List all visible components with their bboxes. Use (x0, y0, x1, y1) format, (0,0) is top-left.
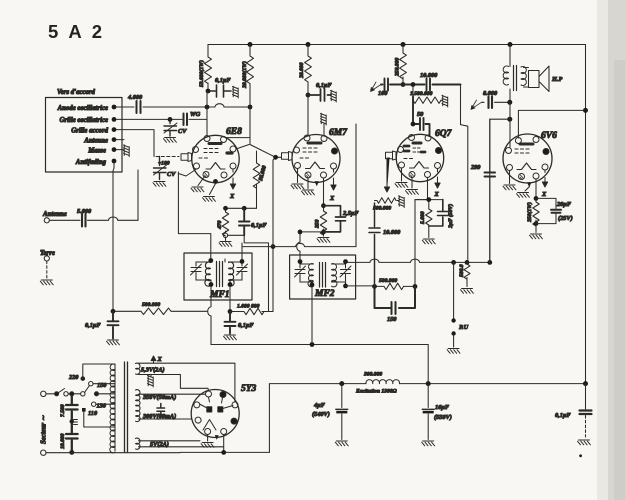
svg-text:Excitation 1300Ω: Excitation 1300Ω (355, 389, 398, 395)
tube 6E8 envelope (192, 135, 239, 182)
MF1 left trimmer (191, 262, 202, 280)
node divider stub x=207 (206, 91, 208, 136)
tube 5Y3 envelope (191, 390, 239, 438)
field coil Excitation (355, 372, 400, 395)
6Q7 pins (398, 135, 442, 178)
tube 6M7 envelope (292, 135, 340, 183)
svg-text:20.000(1W): 20.000(1W) (241, 61, 248, 89)
mains filter caps (60, 396, 78, 455)
svg-text:X: X (541, 191, 547, 198)
AVC line to 6Q7 grid cap50 (242, 124, 356, 247)
wire right leg to 6Q7 cathode (415, 200, 427, 287)
6M7 internals (300, 143, 325, 169)
wire 6M7 grid down to AVC (273, 157, 282, 311)
6E8 pins (193, 136, 237, 184)
svg-text:Vers d'accord: Vers d'accord (57, 89, 96, 96)
6Q7 grid stem (386, 151, 397, 160)
svg-text:5 A 2: 5 A 2 (48, 21, 105, 42)
node bus junctions (248, 42, 513, 47)
capacitor 8.000 + top-cap arrow (6Q7) (471, 90, 510, 110)
svg-text:500.000: 500.000 (142, 302, 160, 308)
svg-text:10.000: 10.000 (383, 229, 401, 236)
wire to MF1 secondary top (244, 235, 268, 311)
svg-text:Antifading: Antifading (75, 159, 107, 166)
svg-text:X: X (434, 191, 440, 198)
capacitor WG (184, 114, 188, 126)
svg-text:470: 470 (217, 220, 223, 230)
svg-text:Grille accord: Grille accord (71, 128, 108, 135)
wire MF2 primary top to y231.9 (297, 232, 324, 262)
resistor 500.000 vert (P.U load) (459, 262, 473, 293)
svg-text:250.000: 250.000 (395, 58, 401, 77)
6M7 grid stem (282, 152, 293, 161)
5Y3 cathode to B- (223, 435, 225, 453)
svg-text:(25V): (25V) (558, 215, 573, 222)
MF1 box (184, 253, 252, 300)
chassis masse (116, 149, 124, 151)
svg-text:0,1µF: 0,1µF (316, 82, 332, 89)
power transformer (110, 362, 128, 453)
MF1 right coil (229, 262, 235, 286)
pin hatch 6E8 (205, 173, 208, 178)
capacitor 20uF (25V) (536, 198, 573, 223)
filament X arrow 6Q7 (435, 169, 440, 188)
svg-text:150: 150 (387, 316, 397, 323)
svg-text:6E8: 6E8 (226, 127, 242, 137)
MF1 top wires (196, 243, 242, 263)
5Y3 pins (194, 391, 238, 435)
svg-text:0,1µF: 0,1µF (555, 412, 571, 419)
svg-text:WG: WG (190, 111, 201, 118)
svg-text:500.000: 500.000 (379, 278, 397, 284)
wire antifading down (113, 163, 114, 311)
svg-text:50.000: 50.000 (258, 165, 268, 182)
terminal Antenne (44, 218, 49, 223)
capacitor 0,1uF (osc cathode) (228, 208, 268, 235)
6M7 pins (294, 135, 338, 178)
MF2 primary return to bus (311, 286, 313, 345)
secondary 6,3V (136, 356, 235, 402)
svg-text:(540V): (540V) (312, 411, 330, 418)
resistor 20.000 (6M7 screen) (299, 45, 311, 98)
resistor 500.000 (diode load) (372, 278, 417, 290)
capacitor 2,5uF (6M7 cathode) (324, 206, 360, 232)
wire 6E8 plate to MF1 (178, 172, 210, 259)
wire 6Q7 grid to pot arrow (384, 158, 389, 192)
svg-text:6V6: 6V6 (541, 131, 557, 141)
resistor 53.000(1W) (198, 45, 212, 92)
svg-text:+100: +100 (158, 161, 170, 167)
MF1 primary return w/ hop (208, 286, 211, 345)
potentiometer 500.000 (volume) (373, 196, 404, 212)
wire volume pot left leg w/ cap 10.000 (369, 203, 401, 286)
svg-text:500.0: 500.0 (459, 264, 465, 277)
capacitor 16uF electrolytic (422, 384, 452, 446)
wire B+ to output transformer (509, 45, 511, 148)
6M7 cathode: resistor 350 (315, 178, 330, 242)
svg-text:5Y3: 5Y3 (241, 384, 257, 394)
svg-text:299: 299 (470, 164, 481, 171)
svg-text:0,1µF: 0,1µF (238, 322, 254, 329)
svg-text:1.000 000: 1.000 000 (237, 304, 260, 310)
svg-text:Anode oscillatrice: Anode oscillatrice (57, 105, 108, 112)
svg-text:6M7: 6M7 (329, 128, 348, 138)
6V6 cathode: resistor 250(1W) + 20uF (526, 179, 542, 239)
capacitor 4uF electrolytic (312, 384, 348, 446)
wire tone cap line to 299 (490, 119, 510, 262)
box Vers d'accord (46, 98, 123, 173)
svg-text:Grille oscillatrice: Grille oscillatrice (59, 117, 108, 124)
wire right border (585, 45, 587, 384)
capacitor 50 (6Q7 grid) (411, 97, 430, 137)
P.U pickup (447, 262, 469, 353)
svg-text:Antenne: Antenne (83, 138, 108, 145)
svg-text:350: 350 (315, 219, 321, 229)
6V6 internals (515, 144, 536, 170)
svg-text:4.000: 4.000 (127, 94, 143, 101)
MF2 left trimmer (295, 264, 306, 282)
svg-text:5V(2A): 5V(2A) (150, 441, 169, 448)
6E8 plate wiring to bus (226, 107, 276, 157)
6Q7 internals (404, 143, 429, 168)
svg-text:300.000: 300.000 (363, 372, 382, 378)
ground 6E8 bottom (210, 184, 216, 195)
resistor 1.000.000 (230, 304, 273, 315)
tube 6Q7 envelope (396, 134, 443, 181)
MF2 right trimmer (340, 264, 351, 282)
ground 6E8 left (198, 177, 205, 186)
MF2 left coil (308, 264, 313, 287)
MF2 secondary bottom to diode line (346, 285, 375, 287)
svg-text:350V(50mA): 350V(50mA) (142, 394, 176, 401)
svg-text:Masse: Masse (87, 148, 106, 155)
ground 6Q7 mid (411, 178, 413, 189)
resistor 20.000(1W) (241, 45, 254, 108)
svg-text:X: X (157, 356, 163, 363)
MF1 bottom wires (196, 280, 242, 286)
ground 6Q7 left (401, 168, 403, 181)
capacitor 0,1uF (line) (555, 384, 592, 458)
6E8 grid stem (181, 153, 192, 162)
svg-text:6Q7: 6Q7 (435, 129, 453, 139)
MF1 right trimmer (237, 262, 248, 280)
svg-text:10.000: 10.000 (60, 433, 66, 449)
svg-text:8.000: 8.000 (483, 90, 498, 97)
MF1 secondary bottom to AVC node (229, 286, 231, 312)
svg-text:0,1µF: 0,1µF (251, 222, 267, 229)
svg-text:7.500: 7.500 (60, 404, 66, 417)
capacitor 0,1uF (6E8 screen) (206, 77, 239, 98)
svg-text:0,1µF: 0,1µF (215, 77, 231, 84)
capacitor 100 + top-cap arrow (6M7) (371, 79, 402, 98)
svg-text:Antenne: Antenne (42, 211, 67, 218)
svg-text:300V(60mA): 300V(60mA) (142, 413, 176, 420)
svg-text:CV: CV (167, 171, 176, 178)
6V6 pins (506, 137, 550, 180)
paper edge shading right (597, 0, 610, 500)
wire antenne row (116, 139, 124, 141)
MF2 top/bottom wires (300, 261, 346, 264)
resistor 1.500.000 (410, 82, 448, 107)
filament X arrow 6M7 (331, 169, 336, 190)
svg-text:130: 130 (97, 403, 107, 410)
trimmer CV1 (164, 119, 188, 142)
svg-text:2µF (50V): 2µF (50V) (447, 204, 454, 229)
MF1 left coil (205, 262, 211, 286)
svg-text:(550V): (550V) (434, 414, 452, 421)
MF2 core (320, 263, 326, 288)
resistor 250.000 (6Q7 plate load) (395, 45, 407, 87)
capacitor 5.000 (50, 217, 139, 220)
wire B- bus (269, 384, 585, 453)
wire grille osc y=119.4 (116, 118, 207, 120)
resistor 50.000 (osc grid) (253, 151, 268, 208)
MF2 right coil (332, 264, 337, 287)
svg-text:MF2: MF2 (314, 289, 335, 299)
wire top bus (208, 44, 586, 46)
svg-text:100: 100 (378, 90, 388, 97)
5Y3 ground left pin (207, 435, 209, 442)
pin hatch 6Q7 (411, 173, 414, 178)
svg-text:150: 150 (97, 382, 107, 389)
6E8 internals (199, 144, 232, 170)
svg-text:0,1µF: 0,1µF (85, 322, 101, 329)
capacitor 10.000 (diode filter) (403, 72, 461, 91)
pin hatch 6M7 (307, 173, 310, 178)
filament X arrow 6E8 (230, 169, 235, 189)
svg-text:220: 220 (68, 374, 79, 381)
speaker H.P (529, 66, 563, 92)
wire y=208.3 row (226, 207, 257, 209)
svg-text:20µF: 20µF (556, 201, 572, 208)
resistor 500.000 (antifading) (111, 302, 207, 315)
capacitor 0,1uF (AVC) (224, 312, 255, 340)
svg-text:10.000: 10.000 (420, 72, 438, 79)
MF1 core (217, 262, 223, 287)
svg-text:53.000(1W): 53.000(1W) (198, 60, 205, 87)
svg-text:2,5µF: 2,5µF (342, 210, 359, 217)
filament X arrow 6V6 (542, 170, 547, 187)
capacitor 0,1uF (6M7 screen) (308, 82, 336, 102)
MF2 box (290, 255, 356, 299)
pin hatch 6V6 (520, 175, 523, 180)
svg-text:4µF: 4µF (313, 402, 326, 409)
6Q7 cathode network 5.000 + 2uF (415, 178, 454, 244)
output transformer (503, 66, 528, 91)
ground 6M7 left (297, 169, 299, 183)
svg-text:H.P: H.P (551, 76, 562, 83)
wire mains bottom (46, 451, 269, 453)
ground 6V6 left (509, 171, 511, 184)
svg-text:X: X (329, 195, 335, 202)
wire filter down to volume line (461, 85, 468, 263)
capacitor 0,1uF (antifading) (85, 311, 119, 345)
svg-text:P.U: P.U (459, 324, 469, 331)
tube 6V6 envelope (503, 134, 552, 183)
svg-text:5.000: 5.000 (420, 211, 426, 224)
svg-text:Terre: Terre (40, 250, 55, 257)
5Y3 internals (200, 397, 234, 439)
capacitor 150 (375, 286, 416, 323)
wire bottom bus (211, 345, 428, 384)
svg-text:Secteur ∼: Secteur ∼ (41, 415, 48, 444)
secondary HV 350V (136, 390, 206, 422)
svg-text:20.000: 20.000 (299, 62, 305, 79)
terminal Terre (44, 256, 49, 261)
svg-text:CV: CV (178, 128, 187, 135)
svg-text:MF1: MF1 (209, 290, 230, 300)
ground 6V6 mid (525, 187, 530, 192)
ground 6M7 mid (307, 178, 309, 189)
wire antenna to coil (137, 170, 139, 220)
resistor 470 (217, 208, 232, 246)
capacitor 4.000 (137, 101, 141, 113)
svg-text:5.000: 5.000 (77, 208, 92, 215)
svg-text:X: X (229, 193, 235, 200)
wire grille accord y=129.6 (116, 130, 154, 157)
svg-text:500.000: 500.000 (373, 206, 391, 212)
wire 6V6 grid feedback y=110.4 (518, 110, 585, 138)
trimmer CV2 (153, 157, 176, 187)
svg-text:250(1W): 250(1W) (526, 202, 533, 223)
svg-text:16µF: 16µF (435, 404, 450, 411)
svg-text:5,3V(2A): 5,3V(2A) (141, 367, 165, 374)
wire detector line y=262.4 w/ hops (346, 259, 490, 262)
wire screen to tube (308, 95, 324, 136)
ground above 6M7 (321, 113, 327, 125)
secondary 5V (136, 438, 224, 449)
capacitor 299 (470, 119, 495, 262)
svg-text:50: 50 (417, 111, 424, 118)
mains Secteur (41, 364, 116, 455)
wire anode osc y=107 (116, 104, 250, 107)
svg-text:110: 110 (88, 410, 98, 417)
